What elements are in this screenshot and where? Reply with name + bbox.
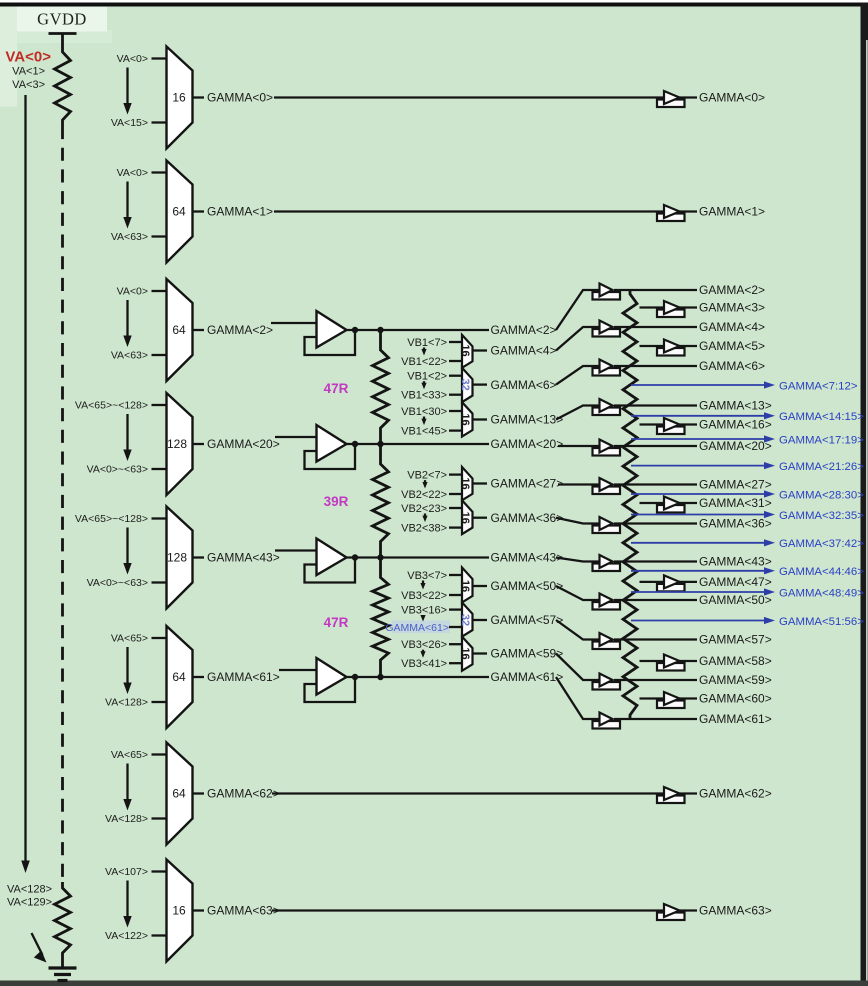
svg-text:16: 16 — [459, 647, 471, 659]
wire ladder tap to buffer row 581 — [640, 581, 665, 583]
svg-text:GAMMA<57>: GAMMA<57> — [491, 613, 564, 627]
svg-text:47R: 47R — [324, 381, 349, 396]
wire ladder tap to buffer row 307 — [640, 306, 665, 308]
wire mux U3 to op-amp A1 input — [271, 322, 317, 324]
junction node on chain row 557 — [377, 554, 383, 560]
net GAMMA&lt;13&gt; output label — [699, 399, 772, 413]
wire buffer row 600 output across ladder — [614, 599, 697, 601]
node VA<3> label — [12, 79, 45, 91]
net GAMMA&lt;20&gt; mid label — [491, 437, 564, 451]
wire group net GAMMA&lt;21:26&gt; (blue) — [631, 461, 864, 473]
svg-text:GAMMA<20>: GAMMA<20> — [491, 437, 564, 451]
net GAMMA&lt;61&gt; output label — [699, 712, 772, 726]
svg-text:VB2<38>: VB2<38> — [401, 522, 447, 534]
net GAMMA&lt;16&gt; output label — [699, 418, 772, 432]
net GAMMA&lt;1&gt; output label — [699, 205, 765, 219]
mux U1 output pin / net GAMMA&lt;0&gt; — [193, 91, 274, 105]
mux U8 input pin VA&lt;107&gt; — [105, 866, 167, 878]
svg-text:GAMMA<16>: GAMMA<16> — [699, 418, 772, 432]
net GAMMA&lt;20&gt; output label — [699, 439, 772, 453]
wire buffer row 661 output — [679, 660, 698, 662]
svg-text:VA<0>: VA<0> — [117, 53, 148, 65]
wire buffer row 366 output across ladder — [614, 365, 697, 367]
svg-text:GAMMA<20>: GAMMA<20> — [699, 439, 772, 453]
svg-text:GAMMA<7:12>: GAMMA<7:12> — [779, 380, 858, 392]
svg-text:GVDD: GVDD — [37, 10, 87, 29]
svg-text:VA<63>: VA<63> — [111, 231, 148, 243]
svg-text:GAMMA<44:46>: GAMMA<44:46> — [779, 566, 864, 578]
svg-text:GAMMA<61>: GAMMA<61> — [207, 670, 280, 684]
svg-text:VB3<26>: VB3<26> — [401, 639, 447, 651]
svg-text:GAMMA<0>: GAMMA<0> — [207, 91, 273, 105]
mux U5 (128:1 -> GAMMA<43>) — [167, 507, 193, 609]
mux U5 input pin VA&lt;0&gt;~&lt;63&gt; — [87, 577, 167, 589]
svg-text:GAMMA<4>: GAMMA<4> — [699, 320, 765, 334]
wire mid row 620 to right buffer row 639 — [556, 620, 600, 640]
mux M1 output stub — [473, 349, 488, 351]
svg-text:128: 128 — [167, 551, 187, 565]
mux U3 output pin / net GAMMA&lt;2&gt; — [193, 323, 274, 337]
buffer switch row 561 (left of ladder) — [593, 555, 621, 571]
mux U4 input pin VA&lt;65&gt;~&lt;128&gt; — [75, 400, 167, 412]
wire mid row 677 to right buffer row 719 — [556, 677, 600, 719]
svg-text:GAMMA<6>: GAMMA<6> — [699, 359, 765, 373]
junction node on chain row 444 — [377, 441, 383, 447]
buffer switch row 910 (output buffer) — [657, 904, 685, 920]
mux U7 (64:1 -> GAMMA<62>) — [167, 743, 193, 845]
node VB1&lt;2&gt; label + stub — [407, 371, 462, 383]
wire group net GAMMA&lt;32:35&gt; (blue) — [631, 510, 864, 522]
mux U3 (64:1 -> GAMMA<2>) — [167, 279, 193, 381]
mux U2 (64:1 -> GAMMA<1>) — [167, 161, 193, 263]
svg-text:GAMMA<61>: GAMMA<61> — [491, 670, 564, 684]
VB range arrow — [422, 480, 427, 488]
wiper arrow to R_bot — [32, 933, 47, 963]
wire buffer row 346 output — [679, 345, 698, 347]
svg-text:GAMMA<50>: GAMMA<50> — [491, 579, 564, 593]
svg-text:VA<128>: VA<128> — [105, 697, 148, 709]
svg-text:GAMMA<32:35>: GAMMA<32:35> — [779, 510, 864, 522]
wire op-amp A1 output to resistor chain — [347, 329, 381, 331]
svg-text:32: 32 — [459, 614, 471, 626]
buffer switch row 424 (right of ladder) — [657, 418, 685, 434]
svg-text:GAMMA<37:42>: GAMMA<37:42> — [779, 538, 864, 550]
svg-text:GAMMA<20>: GAMMA<20> — [207, 437, 280, 451]
wire buffer row 581 output — [679, 581, 698, 583]
net GAMMA&lt;36&gt; mid label — [491, 511, 564, 525]
op-amp A2 feedback loop — [305, 444, 356, 469]
mux U3 input pin VA&lt;63&gt; — [111, 350, 167, 362]
mux U6 input pin VA&lt;65&gt; — [111, 633, 167, 645]
mux U3 input pin VA&lt;0&gt; — [117, 286, 167, 298]
wire group net GAMMA&lt;51:56&gt; (blue) — [631, 616, 864, 628]
wire op-amp A3 output to resistor chain — [347, 556, 381, 558]
svg-text:GAMMA<59>: GAMMA<59> — [491, 647, 564, 661]
svg-text:64: 64 — [172, 323, 186, 337]
op-amp A1 feedback loop — [305, 330, 356, 355]
mux M2 output stub — [473, 383, 488, 385]
buffer switch row 719 (left of ladder) — [593, 713, 621, 729]
svg-text:GAMMA<0>: GAMMA<0> — [699, 91, 765, 105]
wire chain tap to mid GAMMA<20> label — [381, 443, 490, 445]
wire mux U4 to op-amp A2 input — [275, 436, 317, 438]
wire buffer row 503 output — [679, 502, 698, 504]
mux U2 input range arrow — [123, 182, 131, 229]
resistor ladder (right gamma string) — [623, 290, 637, 719]
svg-text:GAMMA<14:15>: GAMMA<14:15> — [779, 411, 864, 423]
buffer switch row 446 (left of ladder) — [593, 440, 621, 456]
svg-text:GAMMA<50>: GAMMA<50> — [699, 593, 772, 607]
net GAMMA&lt;47&gt; output label — [699, 575, 772, 589]
buffer switch row 503 (right of ladder) — [657, 497, 685, 513]
svg-text:GAMMA<48:49>: GAMMA<48:49> — [779, 587, 864, 599]
svg-text:VB2<23>: VB2<23> — [401, 503, 447, 515]
node VB1&lt;22&gt; label + stub — [401, 356, 462, 368]
junction node at A4 output — [352, 674, 358, 680]
net GAMMA&lt;27&gt; mid label — [491, 477, 564, 491]
mux U4 (128:1 -> GAMMA<20>) — [167, 393, 193, 495]
node GAMMA<61> (blue tap label) + stub — [385, 621, 462, 634]
mux U4 input range arrow — [123, 414, 131, 461]
wire buffer row 97 output — [679, 96, 698, 98]
net GAMMA&lt;58&gt; output label — [699, 654, 772, 668]
mux U1 input pin VA&lt;0&gt; — [117, 53, 167, 65]
wire mid row 419 to right buffer row 405 — [556, 406, 600, 420]
wire ladder tap to buffer row 503 — [640, 502, 665, 504]
wire group net GAMMA&lt;48:49&gt; (blue) — [631, 587, 864, 599]
svg-text:GAMMA<36>: GAMMA<36> — [491, 511, 564, 525]
buffer switch row 523 (left of ladder) — [593, 517, 621, 533]
mux M3 output stub — [473, 418, 488, 420]
wire VA bus arrow (tap range indicator) — [21, 95, 30, 873]
svg-text:47R: 47R — [324, 615, 349, 630]
mux U6 input range arrow — [123, 647, 131, 694]
svg-text:VA<0>~<63>: VA<0>~<63> — [87, 464, 148, 476]
mux U6 output pin / net GAMMA&lt;61&gt; — [193, 670, 280, 684]
net GAMMA&lt;62&gt; output label — [699, 787, 772, 801]
mux U2 input pin VA&lt;63&gt; — [111, 231, 167, 243]
svg-text:16: 16 — [459, 512, 471, 524]
wire buffer row 910 output — [679, 909, 698, 911]
wire chain tap to mid GAMMA<61> label — [381, 676, 490, 678]
svg-text:GAMMA<59>: GAMMA<59> — [699, 673, 772, 687]
net GAMMA&lt;60&gt; output label — [699, 692, 772, 706]
svg-text:GAMMA<6>: GAMMA<6> — [491, 378, 557, 392]
wire mid row 517 to right buffer row 523 — [556, 518, 600, 524]
mux U1 (16:1 -> GAMMA<0>) — [167, 47, 193, 149]
mux M5 output stub — [473, 517, 488, 519]
svg-text:GAMMA<28:30>: GAMMA<28:30> — [779, 489, 864, 501]
wire buffer row 405 output across ladder — [614, 404, 697, 406]
wire ladder tap to buffer row 424 — [640, 423, 665, 425]
wire net GAMMA<1> — [274, 210, 664, 212]
svg-text:GAMMA<3>: GAMMA<3> — [699, 301, 765, 315]
mux M6 small (16:1) — [459, 568, 473, 603]
svg-text:GAMMA<2>: GAMMA<2> — [491, 323, 557, 337]
node VB1&lt;33&gt; label + stub — [401, 390, 462, 402]
node VB2&lt;23&gt; label + stub — [401, 503, 462, 515]
buffer switch row 661 (right of ladder) — [657, 655, 685, 671]
mux U4 output pin / net GAMMA&lt;20&gt; — [193, 437, 280, 451]
svg-text:VB3<22>: VB3<22> — [401, 590, 447, 602]
wire op-amp A4 output to resistor chain — [347, 676, 381, 678]
junction node at A2 output — [352, 441, 358, 447]
GVDD power rail T-bar — [49, 34, 77, 47]
resistor 47R value label — [324, 381, 349, 396]
wire buffer row 523 output across ladder — [614, 522, 697, 524]
node VB3&lt;26&gt; label + stub — [401, 639, 462, 651]
resistor 47R second value label — [324, 615, 349, 630]
svg-text:16: 16 — [172, 91, 186, 105]
wire net GAMMA<0> — [274, 96, 664, 98]
wire group net GAMMA&lt;17:19&gt; (blue) — [631, 434, 864, 446]
svg-text:32: 32 — [459, 378, 471, 390]
node VB3&lt;22&gt; label + stub — [401, 590, 462, 602]
svg-text:GAMMA<43>: GAMMA<43> — [207, 551, 280, 565]
op-amp A2 (unity-gain buffer) — [317, 425, 347, 462]
wire buffer row 484 output across ladder — [614, 483, 697, 485]
mux M1 small (16:1) — [459, 335, 473, 368]
svg-text:VB1<33>: VB1<33> — [401, 390, 447, 402]
net GAMMA&lt;50&gt; mid label — [491, 579, 564, 593]
resistor 39R (between GAMMA<20> and GAMMA<43> nodes) — [373, 444, 389, 558]
svg-text:16: 16 — [459, 477, 471, 489]
svg-text:VA<0>~<63>: VA<0>~<63> — [87, 577, 148, 589]
wire buffer row 680 output across ladder — [614, 679, 697, 681]
light wash top-left — [0, 7, 17, 107]
node VA<129> label — [7, 897, 52, 909]
mux U1 input pin VA&lt;15&gt; — [111, 117, 167, 129]
mux M8 output stub — [473, 652, 488, 654]
svg-text:128: 128 — [167, 437, 187, 451]
svg-text:64: 64 — [172, 670, 186, 684]
mux U8 input range arrow — [123, 881, 131, 928]
mux U6 input pin VA&lt;128&gt; — [105, 697, 167, 709]
wire mid row 444 to right buffer row 446 — [558, 445, 600, 447]
wire buffer row 327 output across ladder — [614, 326, 697, 328]
mux U5 input pin VA&lt;65&gt;~&lt;128&gt; — [75, 513, 167, 525]
resistor 39R value label — [324, 494, 349, 509]
wire mid row 653 to right buffer row 680 — [556, 654, 600, 681]
VB range arrow — [421, 381, 426, 389]
wire buffer row 698 output — [679, 697, 698, 699]
net GAMMA&lt;6&gt; output label — [699, 359, 765, 373]
wire ladder tap to buffer row 346 — [640, 345, 665, 347]
svg-text:GAMMA<27>: GAMMA<27> — [491, 477, 564, 491]
svg-text:GAMMA<43>: GAMMA<43> — [491, 551, 564, 565]
svg-text:GAMMA<60>: GAMMA<60> — [699, 692, 772, 706]
svg-text:GAMMA<63>: GAMMA<63> — [699, 904, 772, 918]
mux U4 input pin VA&lt;0&gt;~&lt;63&gt; — [87, 464, 167, 476]
net GAMMA&lt;13&gt; mid label — [491, 413, 564, 427]
node VB2&lt;22&gt; label + stub — [401, 489, 462, 501]
svg-text:VA<107>: VA<107> — [105, 866, 148, 878]
wire buffer row 793 output — [679, 792, 698, 794]
wire group net GAMMA&lt;28:30&gt; (blue) — [631, 489, 864, 501]
node VB3&lt;41&gt; label + stub — [401, 658, 462, 670]
wire mid row 350 to right buffer row 327 — [556, 327, 600, 351]
svg-text:64: 64 — [172, 787, 186, 801]
svg-text:GAMMA<57>: GAMMA<57> — [699, 633, 772, 647]
mux U5 output pin / net GAMMA&lt;43&gt; — [193, 551, 280, 565]
svg-text:VA<0>: VA<0> — [5, 49, 51, 66]
svg-text:VA<15>: VA<15> — [111, 117, 148, 129]
svg-text:GAMMA<1>: GAMMA<1> — [699, 205, 765, 219]
net GAMMA&lt;59&gt; output label — [699, 673, 772, 687]
svg-text:16: 16 — [172, 904, 186, 918]
mux M6 output stub — [473, 585, 488, 587]
mux U8 (16:1 -> GAMMA<63>) — [167, 860, 193, 962]
frame top border — [0, 3, 868, 7]
svg-text:64: 64 — [172, 205, 186, 219]
mux U7 input range arrow — [123, 764, 131, 811]
mux U1 input range arrow — [123, 68, 131, 115]
svg-text:GAMMA<43>: GAMMA<43> — [699, 555, 772, 569]
wire buffer row 211 output — [679, 210, 698, 212]
svg-text:VA<65>~<128>: VA<65>~<128> — [75, 400, 148, 412]
junction node on chain row 330 — [377, 327, 383, 333]
node VB3&lt;7&gt; label + stub — [407, 570, 462, 582]
svg-text:GAMMA<62>: GAMMA<62> — [207, 787, 280, 801]
mux U5 input range arrow — [123, 528, 131, 575]
net GAMMA&lt;36&gt; output label — [699, 517, 772, 531]
svg-text:GAMMA<61>: GAMMA<61> — [385, 622, 449, 634]
mux M4 small (16:1) — [459, 467, 473, 500]
op-amp A4 feedback loop — [305, 677, 356, 702]
buffer switch row 581 (right of ladder) — [657, 575, 685, 591]
svg-text:VB1<22>: VB1<22> — [401, 356, 447, 368]
node VA<128> label — [7, 884, 52, 896]
frame right border — [861, 3, 868, 986]
svg-text:GAMMA<27>: GAMMA<27> — [699, 478, 772, 492]
mux M3 small (16:1) — [459, 402, 473, 436]
buffer switch row 290 (left of ladder) — [593, 284, 621, 300]
buffer switch row 698 (right of ladder) — [657, 692, 685, 708]
node VB1&lt;45&gt; label + stub — [401, 425, 462, 437]
frame bottom border — [0, 981, 868, 986]
VB range arrow — [420, 581, 425, 590]
mux U3 input range arrow — [123, 300, 131, 347]
resistor R_bot (gamma string lower) — [55, 882, 71, 958]
svg-text:VA<63>: VA<63> — [111, 350, 148, 362]
svg-text:16: 16 — [459, 580, 471, 592]
mux U6 (64:1 -> GAMMA<61>) — [167, 626, 193, 728]
VB range arrow — [422, 514, 427, 523]
wire group net GAMMA&lt;14:15&gt; (blue) — [631, 411, 864, 423]
buffer switch row 680 (left of ladder) — [593, 674, 621, 690]
wire buffer row 290 output across ladder — [614, 289, 697, 291]
svg-text:VB2<22>: VB2<22> — [401, 489, 447, 501]
mux M4 output stub — [473, 482, 488, 484]
buffer switch row 211 (output buffer) — [657, 205, 685, 221]
mux M5 small (16:1) — [459, 500, 473, 534]
buffer switch row 97 (output buffer) — [657, 91, 685, 107]
svg-text:GAMMA<51:56>: GAMMA<51:56> — [779, 616, 864, 628]
svg-text:VB1<7>: VB1<7> — [407, 337, 447, 349]
wire buffer row 307 output — [679, 306, 698, 308]
svg-text:GAMMA<5>: GAMMA<5> — [699, 339, 765, 353]
mux U7 input pin VA&lt;65&gt; — [111, 749, 167, 761]
svg-text:16: 16 — [459, 344, 471, 356]
svg-text:VB3<16>: VB3<16> — [401, 604, 447, 616]
junction node on chain row 677 — [377, 674, 383, 680]
buffer switch row 327 (left of ladder) — [593, 321, 621, 337]
mux U2 output pin / net GAMMA&lt;1&gt; — [193, 205, 274, 219]
net GAMMA&lt;3&gt; output label — [699, 301, 765, 315]
net GAMMA&lt;63&gt; output label — [699, 904, 772, 918]
svg-text:VB3<7>: VB3<7> — [407, 570, 447, 582]
svg-text:VA<129>: VA<129> — [7, 897, 52, 909]
net GAMMA&lt;57&gt; output label — [699, 633, 772, 647]
resistor 47R (between GAMMA<2> and GAMMA<20> nodes) — [373, 330, 389, 444]
junction node at A1 output — [352, 327, 358, 333]
wire chain tap to mid GAMMA<43> label — [381, 556, 490, 558]
mux U7 input pin VA&lt;128&gt; — [105, 813, 167, 825]
GVDD supply label box — [17, 7, 107, 32]
node VA<0> label — [5, 49, 51, 66]
svg-text:VA<1>: VA<1> — [12, 66, 45, 78]
node VB2&lt;7&gt; label + stub — [407, 469, 462, 481]
buffer switch row 793 (output buffer) — [657, 787, 685, 803]
net GAMMA&lt;61&gt; mid label — [491, 670, 564, 684]
svg-text:VA<128>: VA<128> — [105, 813, 148, 825]
mux M7 small (32:1) — [459, 602, 473, 636]
svg-text:VA<0>: VA<0> — [117, 286, 148, 298]
mux M7 output stub — [473, 619, 488, 621]
wire op-amp A2 output to resistor chain — [347, 443, 381, 445]
mux U7 output pin / net GAMMA&lt;62&gt; — [193, 787, 280, 801]
svg-text:VB1<2>: VB1<2> — [407, 371, 447, 383]
wire mux U6 to op-amp A4 input — [279, 669, 317, 671]
svg-text:GAMMA<31>: GAMMA<31> — [699, 496, 772, 510]
VB range arrow — [420, 615, 425, 622]
net GAMMA&lt;5&gt; output label — [699, 339, 765, 353]
net GAMMA&lt;43&gt; output label — [699, 555, 772, 569]
wire mid row 586 to right buffer row 600 — [556, 586, 600, 600]
buffer switch row 307 (right of ladder) — [657, 301, 685, 317]
mux U8 output pin / net GAMMA&lt;63&gt; — [193, 904, 280, 918]
node VB2&lt;38&gt; label + stub — [401, 522, 462, 534]
svg-text:GAMMA<1>: GAMMA<1> — [207, 205, 273, 219]
svg-text:VB2<7>: VB2<7> — [407, 469, 447, 481]
wire mid row 384 to right buffer row 366 — [556, 366, 600, 385]
svg-text:VA<128>: VA<128> — [7, 884, 52, 896]
wire group net GAMMA&lt;7:12&gt; (blue) — [631, 380, 858, 392]
mux U8 input pin VA&lt;122&gt; — [105, 930, 167, 942]
svg-text:VA<3>: VA<3> — [12, 79, 45, 91]
wire buffer row 719 output across ladder — [614, 718, 697, 720]
op-amp A1 (unity-gain buffer) — [317, 311, 347, 348]
svg-text:16: 16 — [459, 413, 471, 425]
svg-text:GAMMA<58>: GAMMA<58> — [699, 654, 772, 668]
net GAMMA&lt;59&gt; mid label — [491, 647, 564, 661]
mux M8 small (16:1) — [459, 637, 473, 671]
node VB1&lt;30&gt; label + stub — [401, 406, 462, 418]
svg-text:GAMMA<36>: GAMMA<36> — [699, 517, 772, 531]
node VB1&lt;7&gt; label + stub — [407, 337, 462, 349]
svg-text:VA<65>~<128>: VA<65>~<128> — [75, 513, 148, 525]
buffer switch row 484 (left of ladder) — [593, 478, 621, 494]
net GAMMA&lt;2&gt; output label — [699, 283, 765, 297]
wire mux U5 to op-amp A3 input — [275, 549, 317, 551]
op-amp A4 (unity-gain buffer) — [317, 658, 347, 695]
wire buffer row 424 output — [679, 423, 698, 425]
svg-text:GAMMA<47>: GAMMA<47> — [699, 575, 772, 589]
wire buffer row 561 output across ladder — [614, 560, 697, 562]
mux U2 input pin VA&lt;0&gt; — [117, 167, 167, 179]
wire mid row 483 to right buffer row 484 — [558, 483, 600, 485]
buffer switch row 366 (left of ladder) — [593, 360, 621, 376]
